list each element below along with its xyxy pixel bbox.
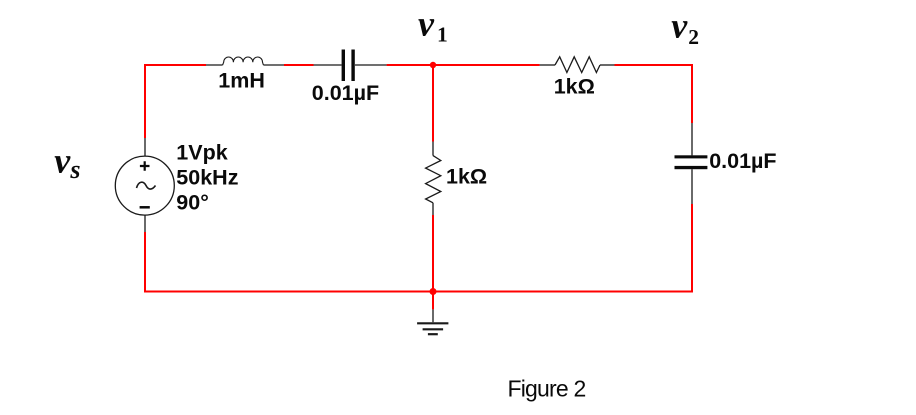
svg-text:v: v	[54, 140, 71, 180]
svg-text:1kΩ: 1kΩ	[446, 165, 487, 189]
svg-text:1Vpk: 1Vpk	[176, 140, 227, 164]
svg-text:1mH: 1mH	[218, 69, 265, 93]
svg-text:0.01µF: 0.01µF	[312, 81, 379, 105]
svg-text:Figure 2: Figure 2	[508, 375, 586, 401]
svg-text:s: s	[69, 155, 80, 184]
svg-text:90°: 90°	[176, 190, 209, 214]
svg-text:2: 2	[688, 25, 699, 49]
svg-text:v: v	[418, 3, 435, 43]
svg-text:1kΩ: 1kΩ	[554, 74, 595, 98]
svg-text:0.01µF: 0.01µF	[709, 149, 776, 173]
svg-text:1: 1	[437, 23, 448, 47]
svg-text:50kHz: 50kHz	[176, 165, 238, 189]
svg-text:v: v	[671, 6, 688, 46]
